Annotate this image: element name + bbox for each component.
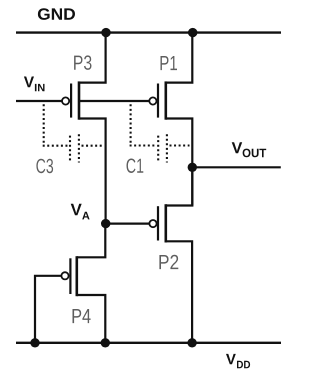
capacitor C1 [130, 104, 190, 162]
capacitor C3 [43, 104, 102, 162]
VA label [71, 204, 90, 220]
P3 label [74, 55, 91, 70]
junction dot on GND rail (P1 source) [188, 28, 197, 37]
transistor P3 [62, 33, 106, 224]
transistor P4 [61, 224, 105, 343]
GND rail [16, 31, 281, 33]
junction dot on GND rail (P3 source) [101, 28, 110, 37]
P1 label [161, 56, 178, 70]
VDD rail [16, 342, 281, 344]
P2 label [159, 255, 178, 269]
VIN label [24, 77, 45, 92]
VOUT node dot [188, 163, 197, 172]
junction dot on VDD rail (P2 drain) [187, 338, 196, 347]
GND label [38, 8, 75, 20]
transistor P1 [149, 33, 192, 206]
wire P3 region to P1 gate [79, 100, 149, 102]
C1 label [127, 159, 144, 174]
P4 gate tie wire to VDD [35, 276, 61, 343]
VOUT label [232, 142, 267, 157]
wire VA to P2 gate [106, 223, 150, 225]
junction dot on VDD rail (P4 gate tie) [30, 338, 39, 347]
junction dot on VDD rail (P4 drain) [101, 338, 110, 347]
VOUT wire [192, 166, 280, 168]
VDD label [226, 354, 250, 368]
VA node dot [101, 219, 110, 228]
transistor P2 [149, 167, 192, 342]
C3 label [36, 159, 53, 174]
P4 label [73, 309, 91, 323]
wire VIN to P3 gate [16, 100, 62, 102]
